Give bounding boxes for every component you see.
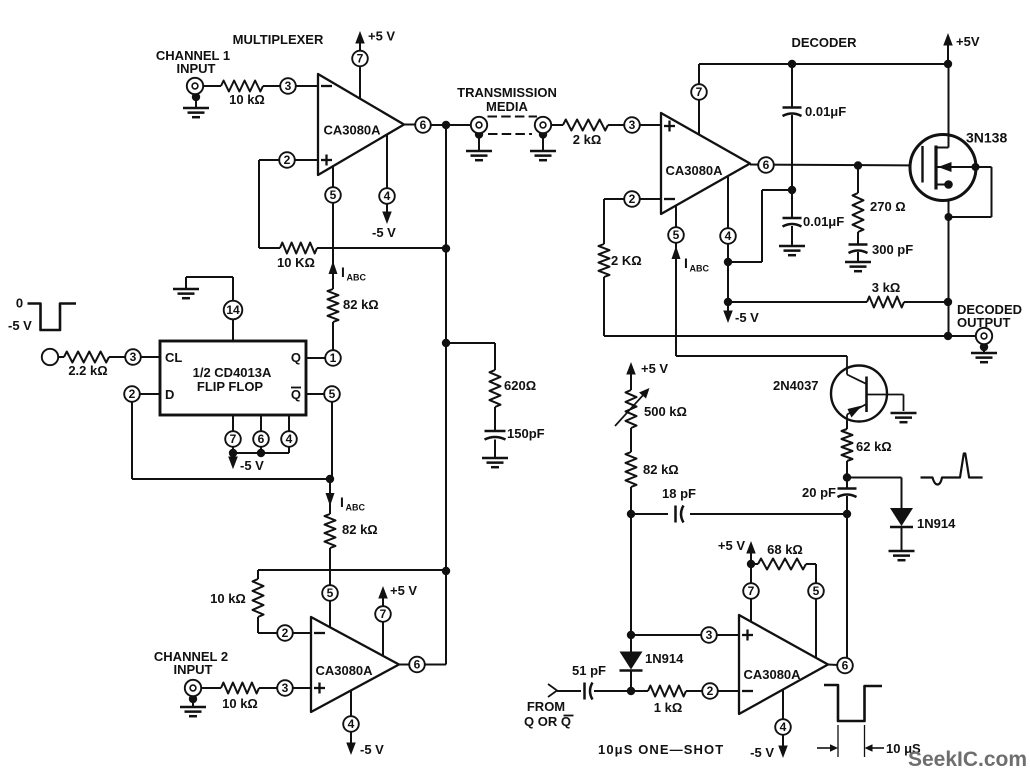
svg-text:4: 4	[348, 717, 355, 731]
svg-text:3N138: 3N138	[966, 130, 1007, 146]
svg-text:2: 2	[129, 387, 136, 401]
svg-text:MEDIA: MEDIA	[486, 99, 529, 114]
svg-text:4: 4	[780, 720, 787, 734]
svg-text:3 kΩ: 3 kΩ	[872, 280, 901, 295]
svg-text:1/2 CD4013A: 1/2 CD4013A	[193, 365, 272, 380]
svg-text:-5 V: -5 V	[240, 458, 264, 473]
svg-text:+5 V: +5 V	[390, 583, 417, 598]
svg-text:2: 2	[707, 684, 714, 698]
svg-text:TRANSMISSION: TRANSMISSION	[457, 85, 557, 100]
svg-text:2.2 kΩ: 2.2 kΩ	[68, 363, 107, 378]
svg-text:82 kΩ: 82 kΩ	[343, 297, 379, 312]
svg-text:I: I	[340, 494, 344, 510]
svg-text:2: 2	[629, 192, 636, 206]
svg-text:+5 V: +5 V	[641, 361, 668, 376]
svg-text:FLIP FLOP: FLIP FLOP	[197, 379, 264, 394]
svg-text:300 pF: 300 pF	[872, 242, 913, 257]
svg-text:10 kΩ: 10 kΩ	[210, 591, 246, 606]
svg-text:0.01μF: 0.01μF	[805, 104, 846, 119]
svg-text:4: 4	[384, 189, 391, 203]
svg-text:18 pF: 18 pF	[662, 486, 696, 501]
svg-text:ABC: ABC	[346, 503, 366, 513]
svg-text:D: D	[165, 387, 174, 402]
svg-text:2: 2	[282, 626, 289, 640]
svg-text:10 kΩ: 10 kΩ	[229, 92, 265, 107]
svg-text:6: 6	[842, 659, 849, 673]
svg-text:3: 3	[706, 628, 713, 642]
svg-text:CL: CL	[165, 350, 182, 365]
svg-text:MULTIPLEXER: MULTIPLEXER	[233, 32, 324, 47]
svg-text:82 kΩ: 82 kΩ	[643, 462, 679, 477]
svg-text:150pF: 150pF	[507, 426, 545, 441]
svg-text:7: 7	[357, 52, 364, 66]
svg-text:20 pF: 20 pF	[802, 485, 836, 500]
svg-text:CA3080A: CA3080A	[323, 123, 381, 138]
svg-text:DECODER: DECODER	[791, 35, 857, 50]
svg-text:3: 3	[629, 118, 636, 132]
svg-text:6: 6	[258, 432, 265, 446]
svg-text:7: 7	[380, 607, 387, 621]
svg-text:I: I	[341, 264, 345, 280]
svg-text:-5 V: -5 V	[735, 310, 759, 325]
svg-text:6: 6	[414, 658, 421, 672]
svg-text:FROM: FROM	[527, 699, 565, 714]
svg-text:-5 V: -5 V	[372, 225, 396, 240]
svg-text:2 kΩ: 2 kΩ	[573, 132, 602, 147]
svg-text:0: 0	[16, 296, 23, 311]
svg-text:ABC: ABC	[347, 273, 367, 283]
svg-text:62 kΩ: 62 kΩ	[856, 439, 892, 454]
svg-text:1 kΩ: 1 kΩ	[654, 700, 683, 715]
svg-text:4: 4	[725, 229, 732, 243]
svg-text:1N914: 1N914	[645, 651, 684, 666]
svg-text:2: 2	[284, 153, 291, 167]
svg-text:SeekIC.com: SeekIC.com	[908, 748, 1027, 771]
svg-text:51 pF: 51 pF	[572, 663, 606, 678]
svg-text:10 kΩ: 10 kΩ	[222, 696, 258, 711]
svg-text:4: 4	[286, 432, 293, 446]
svg-text:-5 V: -5 V	[8, 318, 32, 333]
svg-text:14: 14	[226, 303, 240, 317]
svg-text:CA3080A: CA3080A	[743, 667, 801, 682]
svg-text:CA3080A: CA3080A	[315, 663, 373, 678]
svg-text:10μS ONE—SHOT: 10μS ONE—SHOT	[598, 742, 724, 757]
svg-text:+5V: +5V	[956, 34, 980, 49]
svg-text:Q: Q	[291, 387, 301, 402]
svg-text:68 kΩ: 68 kΩ	[767, 542, 803, 557]
svg-text:+5 V: +5 V	[718, 538, 745, 553]
svg-text:I: I	[684, 255, 688, 271]
svg-text:INPUT: INPUT	[174, 662, 213, 677]
svg-text:5: 5	[813, 584, 820, 598]
svg-text:INPUT: INPUT	[177, 61, 216, 76]
svg-text:3: 3	[130, 350, 137, 364]
svg-text:1N914: 1N914	[917, 516, 956, 531]
svg-text:10 KΩ: 10 KΩ	[277, 255, 315, 270]
svg-text:7: 7	[748, 584, 755, 598]
svg-text:270 Ω: 270 Ω	[870, 199, 906, 214]
svg-text:5: 5	[330, 188, 337, 202]
svg-text:3: 3	[282, 681, 289, 695]
svg-text:6: 6	[763, 158, 770, 172]
svg-text:5: 5	[673, 228, 680, 242]
svg-text:OUTPUT: OUTPUT	[957, 315, 1011, 330]
svg-text:82 kΩ: 82 kΩ	[342, 522, 378, 537]
svg-text:2N4037: 2N4037	[773, 378, 819, 393]
svg-text:7: 7	[696, 85, 703, 99]
svg-text:-5 V: -5 V	[750, 745, 774, 760]
svg-text:500 kΩ: 500 kΩ	[644, 404, 687, 419]
svg-text:-5 V: -5 V	[360, 742, 384, 757]
svg-text:0.01μF: 0.01μF	[803, 214, 844, 229]
svg-text:+5 V: +5 V	[368, 29, 395, 44]
svg-text:620Ω: 620Ω	[504, 378, 536, 393]
svg-text:6: 6	[420, 118, 427, 132]
svg-text:3: 3	[285, 79, 292, 93]
svg-text:7: 7	[230, 432, 237, 446]
svg-text:5: 5	[329, 387, 336, 401]
svg-text:5: 5	[327, 586, 334, 600]
svg-text:CA3080A: CA3080A	[665, 163, 723, 178]
svg-text:ABC: ABC	[690, 264, 710, 274]
svg-text:1: 1	[330, 351, 337, 365]
svg-text:Q: Q	[291, 350, 301, 365]
svg-text:2 KΩ: 2 KΩ	[611, 253, 642, 268]
